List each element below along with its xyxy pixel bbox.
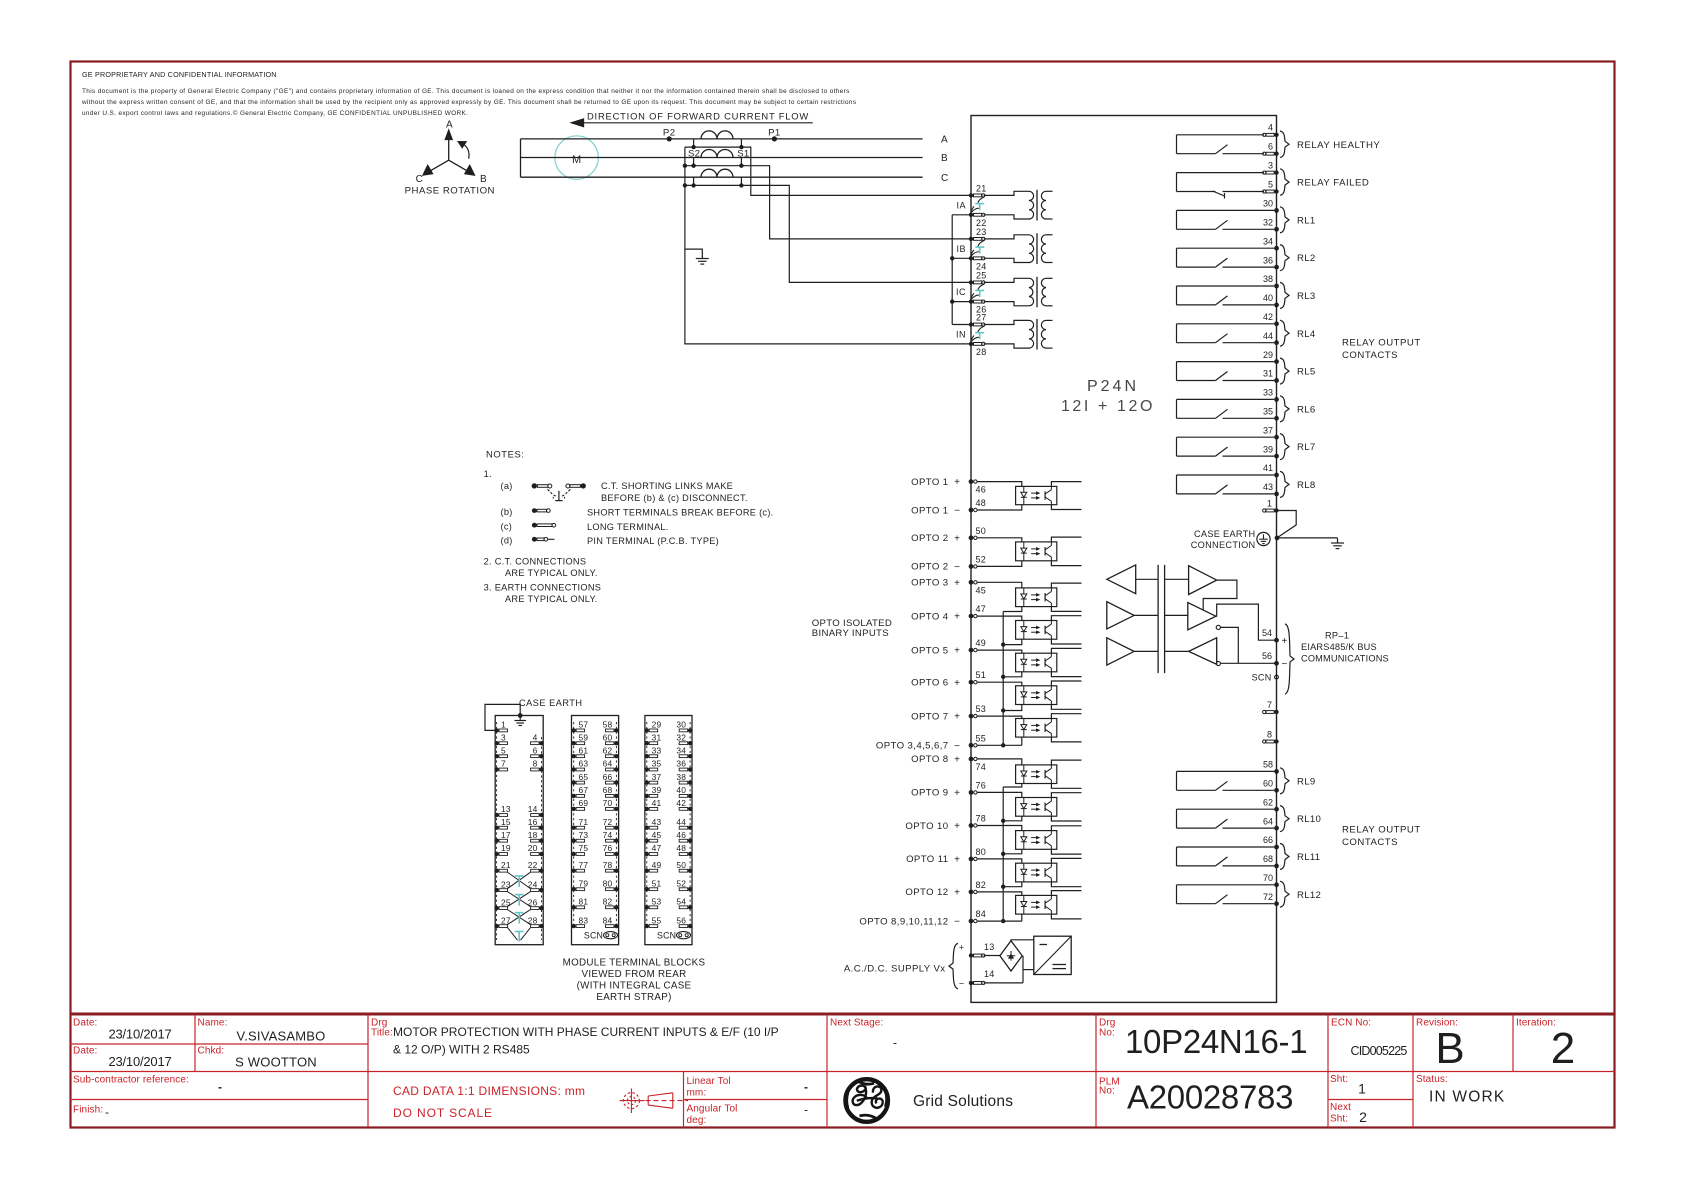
terminal 5 (1263, 179, 1279, 193)
svg-text:OPTO 2: OPTO 2 (911, 533, 948, 544)
terminal 35 (1263, 407, 1279, 421)
svg-text:32: 32 (1263, 218, 1273, 228)
terminal 28 (969, 342, 987, 357)
input transformer IN (984, 319, 1053, 350)
svg-text:45: 45 (976, 585, 987, 595)
svg-text:Title:: Title: (371, 1028, 393, 1039)
svg-text:70: 70 (1263, 873, 1273, 883)
optocoupler OPTO 10 (1016, 826, 1082, 854)
svg-text:OPTO 5: OPTO 5 (911, 645, 948, 656)
terminal 52 OPTO 2 − (911, 554, 986, 573)
svg-text:4: 4 (533, 732, 538, 742)
terminal 58 (1263, 760, 1279, 774)
svg-text:35: 35 (1263, 407, 1273, 417)
svg-text:RL9: RL9 (1297, 776, 1316, 787)
terminal 44 (1263, 331, 1279, 345)
wire opto 12 positive (978, 892, 1022, 896)
phase rotation symbol (405, 120, 495, 197)
svg-text:B: B (941, 153, 948, 164)
terminal 30 (1263, 199, 1279, 213)
svg-text:66: 66 (603, 772, 613, 782)
svg-text:OPTO 4: OPTO 4 (911, 611, 949, 622)
wire case earth to ground (1277, 537, 1338, 539)
svg-text:31: 31 (1263, 369, 1273, 379)
label AC/DC supply (844, 943, 964, 989)
note symbol c (532, 523, 556, 528)
svg-text:RELAY FAILED: RELAY FAILED (1297, 178, 1369, 189)
svg-text:63: 63 (579, 759, 589, 769)
svg-text:+: + (959, 943, 964, 953)
svg-text:S1: S1 (737, 148, 749, 159)
svg-text:(a): (a) (501, 481, 513, 491)
node IN (956, 329, 966, 339)
terminal 54 (1262, 628, 1288, 647)
terminal 21 (969, 184, 987, 198)
svg-text:Next Stage:: Next Stage: (830, 1018, 883, 1029)
svg-text:58: 58 (603, 720, 613, 730)
svg-text:37: 37 (1263, 425, 1273, 435)
node IB (956, 244, 966, 254)
terminal 26 (969, 299, 987, 314)
svg-text:68: 68 (603, 785, 613, 795)
svg-text:+: + (954, 678, 960, 689)
svg-text:CASE EARTH: CASE EARTH (1194, 529, 1256, 539)
svg-text:+: + (954, 533, 960, 544)
wire opto 6 positive (978, 682, 1022, 686)
svg-text:+: + (954, 888, 960, 899)
svg-text:B: B (480, 174, 487, 185)
svg-text:under U.S. export control laws: under U.S. export control laws and regul… (82, 109, 468, 117)
svg-text:OPTO 1: OPTO 1 (911, 505, 948, 516)
svg-text:1: 1 (501, 720, 506, 730)
svg-text:2: 2 (1359, 1109, 1367, 1125)
input transformer IB (984, 233, 1053, 264)
wire phase A (521, 135, 949, 146)
svg-text:NOTES:: NOTES: (486, 448, 525, 459)
svg-text:+: + (954, 477, 960, 488)
terminal 34 (1263, 236, 1279, 250)
terminal 41 (1263, 463, 1279, 477)
svg-text:47: 47 (652, 843, 662, 853)
svg-text:VIEWED FROM REAR: VIEWED FROM REAR (582, 969, 687, 980)
proprietary and confidential note (81, 70, 856, 117)
svg-text:OPTO 2: OPTO 2 (911, 562, 948, 573)
svg-text:SCN: SCN (584, 931, 603, 941)
terminal 50 OPTO 2 + (911, 526, 986, 545)
svg-text:RL4: RL4 (1297, 329, 1316, 340)
svg-text:V.SIVASAMBO: V.SIVASAMBO (237, 1029, 326, 1044)
svg-text:33: 33 (652, 745, 662, 755)
svg-text:36: 36 (1263, 255, 1273, 265)
terminal 70 (1263, 873, 1279, 887)
svg-text:46: 46 (676, 830, 686, 840)
relay contact RL9 (1177, 768, 1316, 794)
RS485 receiver right (1189, 638, 1221, 666)
svg-text:3: 3 (501, 732, 506, 742)
svg-text:18: 18 (528, 830, 538, 840)
svg-text:4: 4 (1268, 123, 1273, 133)
svg-text:23: 23 (976, 227, 987, 237)
wire opto 2 input (978, 538, 1022, 567)
terminal 4 (1263, 123, 1279, 137)
note symbol b (532, 508, 550, 513)
svg-text:P24N: P24N (1087, 378, 1139, 395)
svg-text:−: − (954, 741, 960, 752)
svg-text:76: 76 (976, 780, 987, 790)
svg-text:OPTO 8,9,10,11,12: OPTO 8,9,10,11,12 (859, 916, 948, 927)
svg-text:Grid Solutions: Grid Solutions (913, 1093, 1013, 1110)
svg-text:Chkd:: Chkd: (198, 1046, 225, 1057)
svg-text:21: 21 (501, 860, 511, 870)
svg-text:RP–1: RP–1 (1325, 631, 1349, 641)
svg-text:+: + (954, 612, 960, 623)
svg-text:76: 76 (603, 843, 613, 853)
terminal 3 (1263, 160, 1279, 174)
wire opto 9 positive (978, 792, 1022, 797)
svg-text:47: 47 (976, 604, 987, 614)
svg-text:A: A (446, 120, 453, 131)
svg-text:RELAY OUTPUT: RELAY OUTPUT (1342, 338, 1421, 349)
terminal 68 (1263, 854, 1279, 868)
svg-text:70: 70 (603, 798, 613, 808)
terminal 55 OPTO 3,4,5,6,7 − (876, 733, 986, 752)
svg-text:31: 31 (652, 732, 662, 742)
wire buffer to barrier C (1134, 650, 1189, 652)
svg-text:RL12: RL12 (1297, 890, 1321, 901)
svg-text:21: 21 (976, 184, 987, 194)
svg-text:38: 38 (676, 772, 686, 782)
wire buffer to barrier B (1134, 614, 1188, 616)
svg-text:OPTO 3: OPTO 3 (911, 578, 948, 589)
svg-text:71: 71 (579, 817, 589, 827)
C.T. shorting link IA (971, 197, 985, 213)
svg-text:52: 52 (676, 878, 686, 888)
relay contact RL7 (1177, 434, 1316, 460)
wire opto 8 positive (978, 759, 1022, 765)
svg-text:MOTOR PROTECTION WITH PHASE CU: MOTOR PROTECTION WITH PHASE CURRENT INPU… (393, 1025, 779, 1039)
svg-text:MODULE TERMINAL BLOCKS: MODULE TERMINAL BLOCKS (563, 958, 706, 969)
optocoupler OPTO 9 (1016, 793, 1082, 821)
optocoupler OPTO 1 (1016, 482, 1082, 510)
svg-text:GE PROPRIETARY AND CONFIDENTIA: GE PROPRIETARY AND CONFIDENTIAL INFORMAT… (82, 70, 277, 79)
CT phase A (685, 131, 750, 159)
svg-text:60: 60 (603, 732, 613, 742)
wire CT A S1 to terminal 21 (741, 147, 971, 195)
svg-text:Date:: Date: (73, 1018, 97, 1029)
svg-text:50: 50 (676, 860, 686, 870)
svg-text:27: 27 (976, 313, 987, 323)
svg-text:IA: IA (956, 200, 966, 210)
optocoupler OPTO 6 (1016, 681, 1082, 709)
svg-text:55: 55 (976, 733, 987, 743)
svg-text:45: 45 (652, 830, 662, 840)
ground case earth (1331, 538, 1344, 549)
svg-text:RL6: RL6 (1297, 404, 1316, 415)
svg-text:35: 35 (652, 759, 662, 769)
terminal 1 (1263, 499, 1279, 513)
svg-text:P2: P2 (663, 128, 676, 139)
wire opto 11 positive (978, 859, 1022, 863)
terminal 7 (1263, 700, 1279, 714)
wire motor feeder (520, 139, 522, 177)
svg-text:M: M (572, 154, 581, 166)
svg-text:EARTH STRAP): EARTH STRAP) (596, 992, 671, 1003)
title block values (105, 1023, 1575, 1125)
svg-text:2. C.T. CONNECTIONS: 2. C.T. CONNECTIONS (484, 557, 587, 567)
svg-text:SCN: SCN (1252, 672, 1272, 682)
CT phase C (683, 169, 744, 187)
case earth strap (485, 698, 583, 731)
svg-text:6: 6 (533, 745, 538, 755)
svg-text:C.T. SHORTING LINKS MAKE: C.T. SHORTING LINKS MAKE (601, 481, 733, 491)
svg-text:-: - (893, 1036, 897, 1050)
svg-text:83: 83 (579, 915, 589, 925)
svg-text:30: 30 (676, 720, 686, 730)
wire supply positive (984, 955, 1000, 957)
RS485 driver right (1188, 603, 1221, 630)
svg-text:OPTO 12: OPTO 12 (905, 887, 948, 898)
rectifier bridge (1000, 941, 1022, 971)
terminal 47 OPTO 4 + (911, 604, 986, 623)
RS485 buffer transmit right (1189, 566, 1217, 595)
wire opto 3 positive (978, 582, 1022, 588)
notes (484, 448, 774, 604)
optocoupler OPTO 12 (1016, 891, 1082, 919)
svg-text:−: − (954, 506, 960, 517)
terminal 84 OPTO 8,9,10,11,12 − (859, 909, 986, 928)
svg-text:-: - (804, 1103, 808, 1117)
svg-text:20: 20 (528, 843, 538, 853)
svg-text:43: 43 (1263, 482, 1273, 492)
svg-text:OPTO 11: OPTO 11 (906, 854, 948, 865)
terminal SCN (1252, 672, 1279, 682)
svg-text:Sub-contractor reference:: Sub-contractor reference: (73, 1075, 189, 1086)
svg-text:75: 75 (579, 843, 589, 853)
svg-text:OPTO 1: OPTO 1 (911, 477, 948, 488)
wire CT B S1 to terminal 23 (741, 166, 971, 239)
wire phase B (521, 153, 949, 164)
svg-text:S WOOTTON: S WOOTTON (235, 1055, 317, 1070)
wire RS485 to terminal 54 (1216, 604, 1277, 640)
svg-text:RELAY HEALTHY: RELAY HEALTHY (1297, 140, 1380, 151)
terminal 60 (1263, 779, 1279, 793)
svg-text:Status:: Status: (1416, 1074, 1448, 1085)
svg-text:RELAY OUTPUT: RELAY OUTPUT (1342, 825, 1421, 836)
note symbol a (532, 483, 586, 500)
svg-text:72: 72 (603, 817, 613, 827)
wire rectifier to psu top (1011, 939, 1034, 942)
svg-text:CID005225: CID005225 (1351, 1044, 1408, 1058)
wire relay terminals 22-24-26-27 common (950, 215, 971, 325)
svg-text:74: 74 (976, 762, 987, 772)
cad data note (393, 1084, 585, 1120)
svg-text:54: 54 (1262, 628, 1272, 638)
svg-text:−: − (1282, 659, 1288, 670)
terminal 22 (969, 213, 987, 228)
relay contact RL5 (1177, 358, 1316, 384)
svg-text:56: 56 (676, 915, 686, 925)
svg-text:A20028783: A20028783 (1127, 1079, 1293, 1116)
label module terminal blocks (563, 958, 706, 1004)
svg-text:36: 36 (676, 759, 686, 769)
svg-text:ARE TYPICAL ONLY.: ARE TYPICAL ONLY. (505, 568, 598, 578)
svg-text:55: 55 (652, 915, 662, 925)
optocoupler OPTO 8 (1016, 760, 1082, 788)
terminal 62 (1263, 797, 1279, 811)
svg-text:Sht:: Sht: (1330, 1074, 1348, 1085)
svg-text:22: 22 (528, 860, 538, 870)
svg-text:37: 37 (652, 772, 662, 782)
svg-text:PIN TERMINAL (P.C.B. TYPE): PIN TERMINAL (P.C.B. TYPE) (587, 536, 719, 546)
svg-text:OPTO 8: OPTO 8 (911, 754, 948, 765)
terminal 33 (1263, 388, 1279, 402)
svg-text:+: + (954, 646, 960, 657)
svg-text:28: 28 (976, 347, 987, 357)
svg-text:+: + (954, 788, 960, 799)
terminal 66 (1263, 835, 1279, 849)
svg-text:64: 64 (1263, 816, 1273, 826)
svg-text:34: 34 (1263, 236, 1273, 246)
svg-text:78: 78 (976, 814, 987, 824)
relay contact RELAY HEALTHY (1177, 131, 1381, 158)
svg-text:19: 19 (501, 843, 511, 853)
optocoupler OPTO 11 (1016, 858, 1082, 886)
terminal 29 (1263, 350, 1279, 364)
svg-text:COMMUNICATIONS: COMMUNICATIONS (1301, 654, 1389, 664)
svg-text:mm:: mm: (687, 1088, 707, 1099)
svg-text:C: C (416, 174, 423, 185)
svg-text:48: 48 (976, 498, 987, 508)
svg-text:57: 57 (579, 720, 589, 730)
svg-text:23/10/2017: 23/10/2017 (108, 1054, 171, 1069)
module terminal block 3 (645, 716, 693, 945)
terminal 36 (1263, 255, 1279, 269)
svg-text:P1: P1 (768, 128, 781, 139)
svg-text:without the express written co: without the express written consent of G… (81, 99, 856, 106)
svg-text:RL1: RL1 (1297, 215, 1316, 226)
C.T. shorting link IC (971, 284, 985, 300)
svg-text:This document is the property: This document is the property of General… (82, 88, 850, 95)
svg-text:51: 51 (976, 670, 987, 680)
svg-text:32: 32 (676, 732, 686, 742)
ground CT star point (685, 249, 709, 264)
module terminal block 2 (572, 716, 619, 945)
terminal 42 (1263, 312, 1279, 326)
terminal 13 (969, 942, 995, 958)
terminal 82 OPTO 12 + (905, 880, 986, 899)
terminal 40 (1263, 293, 1279, 307)
terminal 53 OPTO 7 + (911, 704, 986, 723)
RS485 buffer bottom left (1107, 638, 1134, 665)
svg-text:23/10/2017: 23/10/2017 (108, 1027, 171, 1042)
optocoupler OPTO 7 (1016, 714, 1082, 742)
svg-text:3: 3 (1268, 160, 1273, 170)
case earth connection (1191, 511, 1296, 551)
svg-text:No:: No: (1099, 1028, 1115, 1039)
svg-text:72: 72 (1263, 892, 1273, 902)
terminal 43 (1263, 482, 1279, 496)
svg-text:IB: IB (956, 244, 966, 254)
svg-text:29: 29 (1263, 350, 1273, 360)
C.T. shorting link IB (971, 240, 985, 256)
terminal 25 (969, 271, 987, 285)
terminal 46 OPTO 1 + (911, 477, 986, 495)
svg-text:LONG TERMINAL.: LONG TERMINAL. (587, 522, 669, 532)
svg-text:EIARS485/K BUS: EIARS485/K BUS (1301, 642, 1377, 652)
RS485 isolation barrier (1158, 565, 1165, 673)
svg-text:62: 62 (603, 745, 613, 755)
svg-text:69: 69 (579, 798, 589, 808)
terminal 56 (1262, 651, 1288, 670)
terminal 6 (1263, 142, 1279, 156)
title block (70, 1014, 1615, 1128)
svg-text:OPTO 7: OPTO 7 (911, 711, 948, 722)
relay contact RL3 (1177, 282, 1316, 308)
svg-text:RL11: RL11 (1297, 852, 1320, 863)
node IA (956, 200, 966, 210)
svg-text:DIRECTION OF FORWARD CURREN: DIRECTION OF FORWARD CURRENT FLOW (587, 111, 809, 122)
svg-text:60: 60 (1263, 779, 1273, 789)
svg-text:41: 41 (652, 798, 662, 808)
svg-text:58: 58 (1263, 760, 1273, 770)
terminal 39 (1263, 444, 1279, 458)
svg-text:54: 54 (676, 897, 686, 907)
terminal 31 (1263, 369, 1279, 383)
svg-text:RL2: RL2 (1297, 253, 1316, 264)
svg-text:44: 44 (676, 817, 686, 827)
svg-text:C: C (941, 173, 948, 184)
svg-text:43: 43 (652, 817, 662, 827)
svg-text:38: 38 (1263, 274, 1273, 284)
terminal 23 (969, 227, 987, 241)
svg-text:A.C./D.C. SUPPLY Vx: A.C./D.C. SUPPLY Vx (844, 964, 946, 975)
svg-text:8: 8 (533, 759, 538, 769)
svg-text:CONNECTION: CONNECTION (1191, 540, 1256, 550)
terminal 48 OPTO 1 − (911, 498, 986, 517)
svg-text:67: 67 (579, 785, 589, 795)
svg-text:56: 56 (1262, 651, 1272, 661)
terminal 64 (1263, 816, 1279, 830)
svg-text:53: 53 (652, 897, 662, 907)
svg-text:82: 82 (976, 880, 987, 890)
svg-text:41: 41 (1263, 463, 1273, 473)
optocoupler OPTO 5 (1016, 648, 1082, 676)
svg-text:5: 5 (1268, 179, 1273, 189)
relay contact RELAY FAILED (1177, 169, 1370, 199)
svg-text:RL10: RL10 (1297, 814, 1321, 825)
svg-text:Angular Tol: Angular Tol (687, 1104, 738, 1115)
svg-text:Sht:: Sht: (1330, 1114, 1348, 1125)
svg-text:49: 49 (652, 860, 662, 870)
title block labels (73, 1018, 1556, 1127)
svg-text:66: 66 (1263, 835, 1273, 845)
svg-text:RL7: RL7 (1297, 442, 1316, 453)
terminal 49 OPTO 5 + (911, 638, 986, 657)
svg-text:(d): (d) (501, 535, 513, 545)
svg-text:BINARY INPUTS: BINARY INPUTS (812, 628, 889, 639)
relay case P24N (971, 116, 1277, 1003)
svg-text:53: 53 (976, 704, 987, 714)
svg-text:OPTO 9: OPTO 9 (911, 788, 948, 799)
svg-text:40: 40 (676, 785, 686, 795)
svg-text:−: − (954, 562, 960, 573)
svg-text:1: 1 (1358, 1081, 1366, 1097)
svg-text:7: 7 (1267, 700, 1272, 710)
svg-text:52: 52 (976, 554, 987, 564)
svg-text:OPTO 6: OPTO 6 (911, 678, 948, 689)
wire CT S2 common to terminal 28 (685, 147, 971, 344)
relay contact RL1 (1177, 207, 1316, 233)
